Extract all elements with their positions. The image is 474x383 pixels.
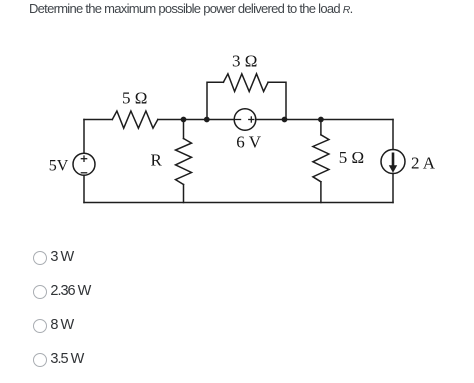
svg-text:R: R: [151, 151, 163, 170]
svg-text:3 Ω: 3 Ω: [232, 52, 257, 71]
svg-text:5V: 5V: [49, 158, 69, 175]
svg-text:6 V: 6 V: [236, 132, 261, 151]
svg-text:5 Ω: 5 Ω: [339, 148, 364, 167]
svg-text:5 Ω: 5 Ω: [122, 89, 147, 108]
svg-text:2 A: 2 A: [411, 153, 436, 172]
